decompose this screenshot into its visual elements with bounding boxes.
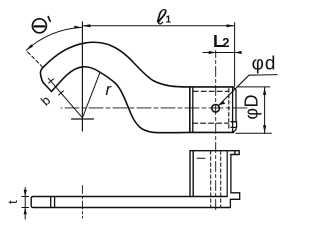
svg-text:φd: φd: [252, 53, 277, 74]
svg-text:φD: φD: [241, 94, 261, 120]
svg-text:t: t: [5, 200, 20, 204]
svg-text:2: 2: [222, 35, 229, 50]
svg-text:1: 1: [166, 15, 172, 26]
